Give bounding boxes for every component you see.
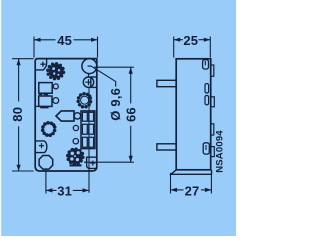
svg-text:80: 80 <box>10 107 25 122</box>
background panel <box>0 0 236 236</box>
side view tab 1 <box>157 80 176 86</box>
terminal cells <box>82 112 93 147</box>
dimension 25 (top of side view) <box>174 37 211 58</box>
leader line to Ø 9,6 label <box>92 66 116 86</box>
dimension 31 (bottom) <box>46 189 89 191</box>
side bump 2 <box>211 97 215 107</box>
side bump 1 <box>211 65 214 76</box>
side bump 4 <box>211 147 215 157</box>
svg-text:27: 27 <box>185 183 200 198</box>
hexagon plug <box>56 111 74 121</box>
front view body outline <box>35 59 97 171</box>
svg-text:66: 66 <box>124 107 139 122</box>
square S1 <box>39 83 52 94</box>
svg-text:Ø 9,6: Ø 9,6 <box>108 88 123 121</box>
side view main body <box>176 59 211 170</box>
mounting corner block top-left with + <box>35 59 46 70</box>
side view tab 2 <box>157 144 176 150</box>
side slot 1 (top right, with dash) <box>203 60 209 69</box>
knurled knob 2 (right, middle) <box>76 92 92 109</box>
terminal strip outer <box>81 111 95 149</box>
small circle right of S1 <box>53 84 58 89</box>
small circle mid column 2 <box>73 125 78 130</box>
side bump 3 <box>211 124 214 135</box>
side view base foot <box>171 170 212 175</box>
square S2 <box>39 96 52 106</box>
dimension 45 (top of front view) <box>34 37 98 58</box>
svg-text:31: 31 <box>57 184 72 199</box>
left + block <box>35 141 47 153</box>
circle at hexagon right end <box>74 113 80 119</box>
66-dim bottom extension line <box>84 161 134 163</box>
side clip (with dash) <box>203 143 209 154</box>
bottom-left octagon hole <box>39 156 53 170</box>
svg-text:NSA0094: NSA0094 <box>214 130 225 173</box>
bottom-right + block <box>87 157 97 168</box>
side slot 3 <box>205 96 209 105</box>
small + circle below big circle <box>88 74 90 77</box>
vertical centerline x=89 down to 31-dim <box>88 151 90 193</box>
S1 terminal feet <box>39 93 43 95</box>
S2 terminal foot <box>40 107 48 109</box>
svg-text:45: 45 <box>57 33 72 48</box>
small rect at right edge next to + circle <box>91 77 97 87</box>
small circle right of S2 <box>53 98 59 104</box>
31-dim left extension <box>45 170 47 194</box>
dimension 66 (right of front view) <box>94 66 134 68</box>
dimension 80 (left, vertical) <box>12 59 34 171</box>
dimension 27 (bottom of side view) <box>171 173 212 194</box>
side slot 2 <box>205 84 209 93</box>
shelf line under S2 to body edge <box>35 105 39 107</box>
big circle top-right (Ø 9,6) <box>82 59 97 74</box>
knurled knob 1 (top-left) <box>46 62 65 80</box>
DIN connector (bottom, knurled with pins) <box>66 148 84 166</box>
svg-text:25: 25 <box>183 33 198 48</box>
body centerline through knob2/strip <box>88 87 90 150</box>
small circle mid column 3 <box>73 139 78 144</box>
knurled ring 3 (mid-left, beaded) <box>41 121 57 137</box>
